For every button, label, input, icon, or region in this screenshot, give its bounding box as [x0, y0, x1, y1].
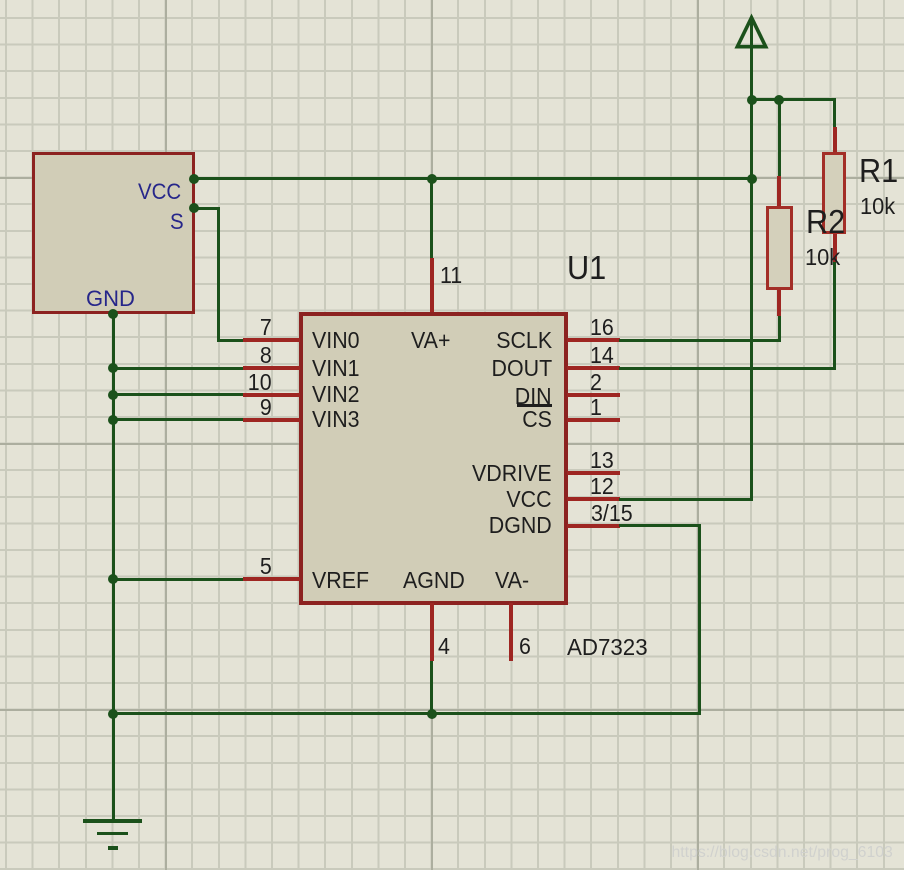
pin number 16	[590, 316, 640, 339]
label GND (sensor)	[86, 288, 135, 310]
wire VREF	[113, 578, 243, 581]
wire VIN1	[113, 367, 243, 370]
label 6	[519, 635, 569, 658]
pin VIN2 (10)	[243, 393, 300, 397]
junction S at sensor	[189, 203, 199, 213]
pin name VCC	[432, 488, 552, 511]
junction rail left	[108, 709, 118, 719]
pin VA+ (11)	[430, 258, 434, 314]
pin name VIN0	[312, 329, 363, 352]
pin number 12	[590, 475, 640, 498]
pin DOUT (14)	[567, 366, 620, 370]
ground symbol bar3	[108, 846, 118, 850]
label U1	[567, 251, 609, 284]
wire bottom rail	[112, 712, 701, 715]
wire R1 bottom green	[833, 262, 836, 369]
wire power vertical	[750, 18, 753, 501]
pin name SCLK	[432, 329, 552, 352]
pin name VIN1	[312, 357, 363, 380]
junction VIN1	[108, 363, 118, 373]
sensor box	[32, 152, 195, 314]
pin CS (1)	[567, 418, 620, 422]
pin VIN1 (8)	[243, 366, 300, 370]
label 11	[440, 264, 490, 287]
wire R-branch horizontal	[750, 98, 836, 101]
wire SCLK	[619, 339, 781, 342]
pin R1 bottom lead	[833, 234, 837, 262]
pin name VA-	[495, 569, 532, 592]
junction VIN3	[108, 415, 118, 425]
wire GND vertical from sensor	[112, 314, 115, 820]
wire VCC rail horizontal	[195, 177, 753, 180]
label R2	[806, 205, 848, 238]
ground symbol bar2	[97, 832, 128, 836]
pin AGND (4)	[430, 603, 434, 661]
label VCC (sensor)	[138, 181, 184, 203]
pin VREF (5)	[243, 577, 300, 581]
pin DIN (2)	[567, 393, 620, 397]
pin DGND (3/15)	[567, 524, 620, 528]
pin number 9	[222, 396, 272, 419]
pin name VIN2	[312, 383, 363, 406]
pin R2 bottom lead	[777, 290, 781, 316]
wire R1 top green	[833, 98, 836, 127]
junction GND at sensor bottom	[108, 309, 118, 319]
pin number 3/15	[591, 502, 641, 525]
wire VCC pin to power line	[619, 498, 753, 501]
label AD7323	[567, 636, 650, 659]
bar over CS / under DIN	[517, 404, 552, 407]
pin number 1	[590, 396, 640, 419]
junction R2 top	[774, 95, 784, 105]
pin name DGND	[432, 514, 552, 537]
power symbol (arrow)	[732, 12, 772, 52]
wire S vertical	[217, 207, 220, 341]
watermark	[672, 844, 893, 862]
pin R2 top lead	[777, 176, 781, 207]
resistor R1	[822, 152, 846, 234]
label R1	[859, 154, 901, 187]
label S (sensor)	[170, 211, 185, 233]
pin name DOUT	[432, 357, 552, 380]
pin name CS	[432, 408, 552, 431]
resistor R2	[766, 206, 793, 291]
pin VCC (12)	[567, 497, 620, 501]
wire DGND vertical	[698, 524, 701, 715]
pin number 8	[222, 344, 272, 367]
pin number 13	[590, 449, 640, 472]
pin number 10	[222, 371, 272, 394]
label R1 10k	[860, 195, 897, 218]
wire AGND green	[430, 661, 433, 715]
junction rail AGND	[427, 709, 437, 719]
junction VCC at power line	[747, 174, 757, 184]
pin name VIN3	[312, 408, 363, 431]
label R2 10k	[805, 246, 842, 269]
pin name AGND	[403, 569, 469, 592]
wire R2 top green	[778, 98, 781, 177]
wire VIN3	[113, 418, 243, 421]
pin number 2	[590, 371, 640, 394]
pin SCLK (16)	[567, 338, 620, 342]
wire R2 bottom green	[778, 316, 781, 342]
wire S to pin7	[217, 339, 244, 342]
label 4	[438, 635, 488, 658]
junction VREF	[108, 574, 118, 584]
pin VA- (6)	[509, 603, 513, 661]
chip U1 body	[299, 312, 568, 606]
wire VIN2	[113, 393, 243, 396]
pin number 14	[590, 344, 640, 367]
pin name VDRIVE	[432, 462, 552, 485]
junction VCC at VA+ branch	[427, 174, 437, 184]
junction VIN2	[108, 390, 118, 400]
wire VA+ vertical green	[430, 177, 433, 258]
pin VIN0 (7)	[243, 338, 300, 342]
wire DOUT	[619, 367, 836, 370]
pin name DIN	[432, 385, 552, 408]
wire S horizontal	[195, 207, 220, 210]
junction power/R-branch	[747, 95, 757, 105]
pin number 5	[222, 555, 272, 578]
pin number 7	[222, 316, 272, 339]
pin VDRIVE (13)	[567, 471, 620, 475]
pin name VA+	[411, 329, 453, 352]
junction VCC at sensor	[189, 174, 199, 184]
pin R1 top lead	[833, 127, 837, 152]
wire DGND horizontal	[619, 524, 701, 527]
pin VIN3 (9)	[243, 418, 300, 422]
pin name VREF	[312, 569, 373, 592]
ground symbol bar1	[83, 819, 142, 823]
